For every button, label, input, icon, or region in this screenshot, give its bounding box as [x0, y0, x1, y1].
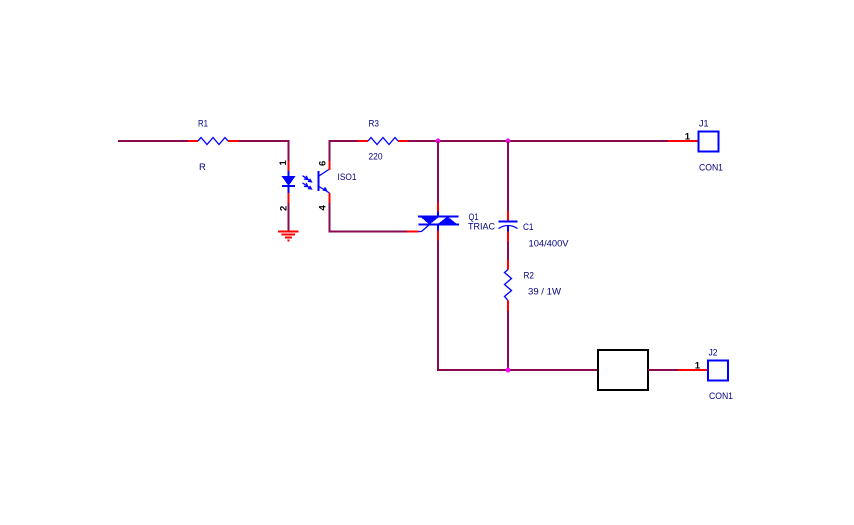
wire: top rail down to C1 [507, 141, 509, 211]
svg-text:J1: J1 [699, 119, 709, 130]
pin 1 lead [288, 161, 290, 171]
bottom bar [419, 224, 460, 226]
J1 pin 1 lead [668, 140, 699, 142]
resistor R2 [505, 260, 512, 311]
wire: triac down to bottom rail [437, 241, 439, 372]
LED cathode bar [282, 185, 295, 187]
wire: bottom rail [437, 369, 598, 371]
wire: R2 down to bottom rail [507, 311, 509, 370]
svg-text:R3: R3 [369, 119, 380, 130]
emitter lead diagonal [319, 187, 330, 194]
svg-text:1: 1 [685, 132, 691, 143]
pin 6 lead [329, 161, 331, 170]
light arrow 1 [303, 176, 313, 183]
wire: LED cathode to ground [288, 203, 290, 231]
wire: top rail down to triac [437, 141, 439, 203]
svg-text:R2: R2 [524, 271, 535, 282]
svg-text:39 / 1W: 39 / 1W [528, 287, 561, 298]
svg-text:CON1: CON1 [709, 391, 733, 402]
connector J2 [678, 361, 728, 381]
wire: R3 to J1 lead (top rail) [408, 140, 668, 142]
emitter arrowhead [322, 187, 328, 192]
LED triangle [282, 176, 296, 186]
svg-text:ISO1: ISO1 [338, 172, 357, 183]
wire: opto pin4 to triac gate [330, 203, 408, 232]
pin 2 lead [288, 193, 290, 203]
svg-text:R: R [199, 162, 206, 173]
svg-text:TRIAC: TRIAC [468, 222, 495, 233]
light arrow 2 [303, 183, 313, 190]
resistor R3 [358, 138, 408, 145]
LED cathode line [288, 186, 290, 193]
svg-text:1: 1 [695, 361, 701, 372]
wire: left input segment [118, 140, 188, 142]
ground [278, 232, 299, 241]
collector lead diagonal [319, 169, 330, 176]
svg-text:R1: R1 [198, 119, 208, 130]
wire: R1 to LED corner [239, 141, 289, 161]
junction node at C1 branch [506, 139, 511, 144]
J2 pin 1 lead [678, 369, 708, 371]
J2 body [708, 361, 728, 381]
junction node at triac branch [436, 139, 441, 144]
junction node at bottom rail [506, 368, 511, 373]
resistor R1 [188, 138, 239, 145]
right triangle [437, 217, 458, 225]
top bar [418, 216, 459, 218]
svg-text:4: 4 [318, 205, 329, 211]
cathode pin lead [437, 225, 439, 231]
triac Q1 [407, 203, 459, 241]
svg-text:J2: J2 [709, 348, 718, 359]
gate lead [419, 225, 430, 232]
anode pin lead [437, 203, 439, 212]
pin 4 lead [329, 193, 331, 203]
svg-text:6: 6 [318, 161, 329, 166]
wire: opto pin6 up and right to R3 [330, 141, 359, 161]
wire: box to J2 lead [648, 369, 678, 371]
connector J1 [668, 132, 719, 152]
phototransistor base bar [318, 171, 320, 191]
capacitor C1 [499, 211, 518, 242]
load box [598, 350, 648, 390]
svg-text:1: 1 [278, 160, 289, 166]
svg-text:220: 220 [369, 152, 383, 163]
J1 body [699, 132, 719, 152]
LED anode line [288, 171, 290, 176]
left triangle [420, 217, 440, 225]
svg-text:104/400V: 104/400V [529, 239, 570, 250]
wire: C1 to R2 [507, 242, 509, 260]
svg-text:CON1: CON1 [699, 163, 723, 174]
svg-text:C1: C1 [523, 222, 534, 233]
opto-coupler ISO1 [278, 160, 330, 212]
